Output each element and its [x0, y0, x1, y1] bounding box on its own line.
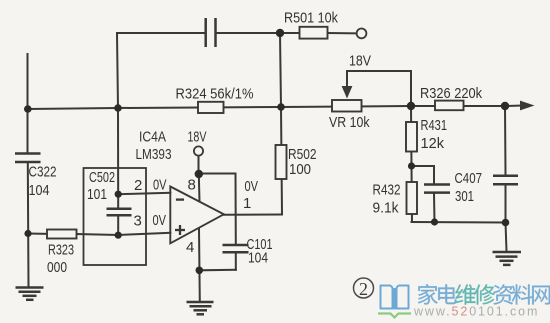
plus input marker — [175, 225, 185, 235]
wire: C101 bottom vertical — [235, 254, 237, 270]
svg-text:R501 10k: R501 10k — [284, 10, 338, 27]
wire: right ground stem — [506, 223, 507, 252]
resistor R432 — [407, 182, 418, 214]
svg-text:18V: 18V — [349, 53, 371, 70]
svg-text:0V: 0V — [245, 178, 259, 195]
wire: main horizontal bus — [28, 106, 522, 110]
svg-text:100: 100 — [289, 161, 311, 178]
svg-text:www.520101.com: www.520101.com — [413, 305, 539, 319]
wire: 18V terminal to pin 8 node — [198, 156, 200, 174]
svg-text:104: 104 — [29, 182, 50, 199]
svg-text:C322: C322 — [29, 164, 57, 181]
svg-text:104: 104 — [248, 250, 268, 267]
capacitor C407 — [424, 185, 450, 193]
wire: C322 node to R323 — [28, 233, 47, 235]
svg-text:VR 10k: VR 10k — [329, 114, 370, 131]
node: bus / R502 branch — [277, 103, 285, 111]
junction node dots — [24, 29, 509, 274]
svg-text:R432: R432 — [373, 182, 401, 199]
watermark book icon — [381, 286, 409, 310]
node: C322 / R323 — [24, 230, 31, 237]
wire: right cap top vertical — [504, 106, 507, 175]
svg-text:R431: R431 — [421, 117, 448, 134]
output arrow — [520, 101, 535, 111]
resistor R323 — [47, 230, 77, 239]
wire: left vertical below C322 down to ground — [27, 164, 30, 288]
wire: bus node down through R502 to output corner — [281, 107, 282, 215]
capacitor C322 — [15, 154, 41, 163]
resistor R324 — [198, 102, 224, 113]
wire: R501 to open terminal — [328, 32, 357, 34]
svg-text:0V: 0V — [153, 177, 167, 194]
node: R501 / feedback cap — [276, 29, 284, 37]
node: right cap / ground rail — [502, 219, 510, 227]
node: C407 / ground rail — [431, 218, 438, 225]
18V supply terminal of op-amp — [194, 146, 203, 155]
wire: C101 bottom horizontal to pin 4 line — [199, 269, 236, 272]
wire: non-inverting input pin 3 — [118, 233, 170, 235]
capacitor C101 — [223, 245, 249, 252]
capacitor inside C502 — [107, 209, 132, 215]
svg-text:12k: 12k — [421, 135, 445, 152]
resistor R501 — [300, 27, 328, 39]
potentiometer VR 10k — [332, 100, 362, 112]
svg-text:2: 2 — [359, 279, 368, 299]
wire: vertical from bus into C502 box — [117, 108, 119, 209]
wire: inverting input pin 2 — [118, 193, 170, 194]
wire: R501 node down to bus — [280, 33, 281, 107]
component box C502 — [84, 168, 147, 265]
open terminal after R501 — [357, 29, 367, 39]
wire: top-left input stub — [27, 54, 29, 109]
node: bus / feedback vertical — [114, 104, 122, 112]
node: 18V / pin 8 — [195, 170, 203, 178]
node: R431-R432 / C407 branch — [408, 162, 415, 169]
wire: feedback capacitor to R501 node — [216, 32, 300, 34]
node: bus / right cap / arrow — [501, 102, 509, 110]
svg-text:101: 101 — [87, 186, 107, 203]
ground (right) — [493, 252, 522, 265]
wire: pin 8 supply into op-amp — [198, 174, 201, 202]
resistor R502 — [276, 145, 287, 179]
resistor R431 — [406, 122, 417, 152]
capacitor (right, unlabeled) — [493, 176, 518, 185]
circled figure number 2 — [354, 278, 374, 298]
svg-text:18V: 18V — [188, 129, 207, 146]
resistor R326 — [435, 101, 464, 111]
wire: C407 bottom to ground rail — [433, 194, 436, 223]
wire: 18V feed over VR with bends — [347, 71, 411, 106]
capacitor (top feedback, unlabeled) — [206, 18, 216, 47]
wire: pin 8 node right to C101 branch — [199, 173, 236, 175]
svg-text:2: 2 — [134, 177, 142, 194]
svg-text:R326 220k: R326 220k — [420, 85, 482, 102]
svg-text:4: 4 — [186, 239, 194, 256]
node: bus / VR / R431 — [407, 102, 415, 110]
wire: left vertical above C322 — [27, 109, 29, 152]
svg-text:1: 1 — [243, 195, 251, 212]
svg-text:C502: C502 — [89, 169, 115, 186]
svg-text:301: 301 — [455, 188, 474, 205]
wire: bottom ground rail — [412, 221, 506, 224]
svg-text:C407: C407 — [455, 170, 483, 187]
wire: branch to C407 — [412, 166, 435, 184]
wire: op-amp pin 4 down to ground — [198, 229, 201, 301]
wire: C502 cap bottom to pin 3 node — [117, 216, 119, 236]
wire: C101 vertical crossing output — [235, 174, 237, 245]
wire: top rail to feedback capacitor — [117, 32, 205, 34]
svg-text:LM393: LM393 — [136, 146, 172, 163]
svg-text:000: 000 — [47, 259, 67, 276]
watermark text — [418, 284, 550, 304]
svg-text:IC4A: IC4A — [139, 129, 166, 146]
svg-text:0V: 0V — [153, 212, 167, 229]
ground (bottom left) — [16, 288, 44, 300]
svg-text:9.1k: 9.1k — [373, 200, 399, 217]
svg-text:8: 8 — [188, 177, 196, 194]
minus input marker — [176, 198, 184, 200]
node: pin 4 / C101 ground link — [196, 267, 204, 275]
watermark book base — [378, 314, 411, 318]
wire: R323 to C502 pin 3 node — [77, 234, 119, 235]
wire: right cap bottom vertical — [505, 185, 507, 222]
svg-text:R324 56k/1%: R324 56k/1% — [176, 86, 254, 103]
svg-text:3: 3 — [134, 213, 142, 230]
ground (under op-amp) — [187, 302, 214, 314]
node: C502 pin 2 — [115, 191, 122, 198]
svg-text:R323: R323 — [48, 242, 74, 259]
node: bus / C322 branch — [24, 105, 32, 113]
wire: R432 vertical — [411, 166, 414, 222]
wire: op-amp output to R502 corner — [224, 214, 282, 216]
wiper arrow of VR — [342, 86, 353, 99]
wire: feedback vertical from bus up to top rail — [117, 33, 118, 108]
wire: R431 branch vertical — [410, 106, 413, 166]
op-amp IC4A LM393 — [170, 187, 224, 244]
node: C502 pin 3 — [115, 232, 122, 239]
